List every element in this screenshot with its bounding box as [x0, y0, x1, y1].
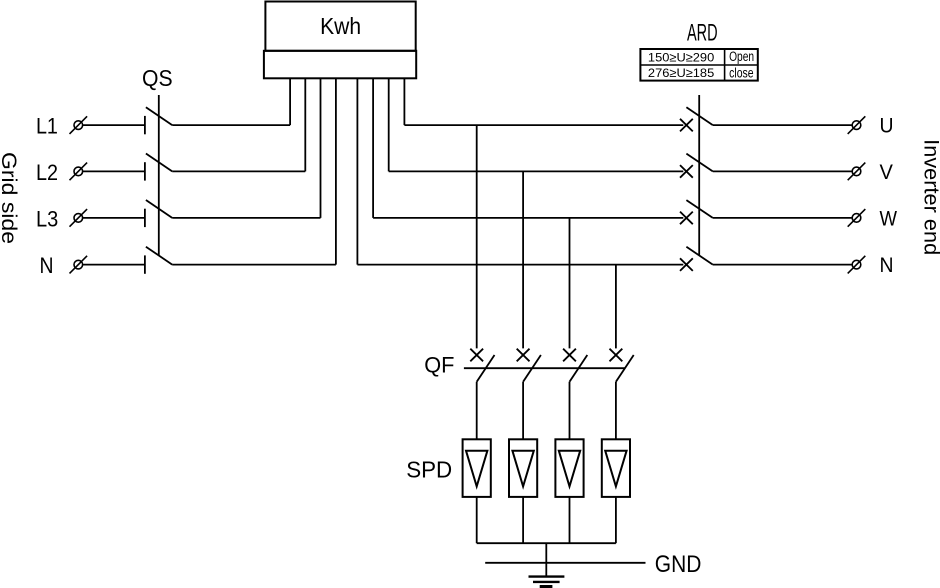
meter pin 4 (N in) [335, 78, 337, 264]
wire L2 terminal to QS [83, 170, 145, 172]
meter Kwh body [264, 2, 416, 79]
breaker ARD pole 3 X contact [680, 212, 693, 225]
wire L1 terminal to QS [83, 124, 145, 126]
wire L2 QS to meter pin [172, 170, 305, 172]
breaker QF pole 2 blade [523, 355, 541, 382]
breaker ARD pole 2 blade [686, 154, 712, 172]
meter pin 6 (W out) [372, 78, 374, 218]
wire SPD 2 to ground bus [522, 497, 524, 543]
wire V ARD to terminal [713, 170, 852, 172]
breaker QF pole 1 blade [477, 355, 495, 382]
wire U meter pin to ARD [404, 124, 683, 126]
terminal L2 circle [70, 163, 88, 181]
svg-text:L1: L1 [36, 114, 58, 139]
wire L1 QS to meter pin [172, 124, 290, 126]
breaker ARD pole 4 X contact [680, 258, 693, 271]
meter pin 3 (L3 in) [320, 78, 322, 218]
wire L3 QS to meter pin [172, 217, 320, 219]
meter pin 2 (L2 in) [304, 78, 306, 171]
breaker ARD pole 2 X contact [680, 165, 693, 178]
wire W ARD to terminal [713, 217, 852, 219]
svg-text:GND: GND [655, 551, 702, 578]
GND wire [485, 562, 645, 564]
svg-text:QS: QS [142, 65, 173, 91]
svg-text:L3: L3 [36, 206, 58, 231]
switch QS gang bar [158, 95, 160, 256]
switch QS pole 2 blade [146, 154, 172, 172]
terminal N circle [70, 256, 88, 274]
wire N meter pin to ARD [357, 264, 683, 266]
breaker QF pole 3 blade [570, 355, 588, 382]
wire SPD 3 to ground bus [569, 497, 571, 543]
wire QF pole 3 to SPD [569, 382, 571, 440]
breaker ARD pole 3 blade [686, 200, 712, 218]
breaker ARD pole 1 blade [686, 107, 712, 125]
wire SPD 1 to ground bus [476, 497, 478, 543]
breaker QF gang bar [464, 367, 625, 369]
svg-text:QF: QF [424, 353, 454, 378]
terminal L1 circle [70, 116, 88, 134]
SPD 4 body [602, 439, 630, 497]
breaker QF pole 4 blade [616, 355, 634, 382]
terminal L3 circle [70, 209, 88, 227]
wire U ARD to terminal [713, 124, 852, 126]
breaker ARD pole 1 X contact [680, 119, 693, 132]
breaker ARD gang bar [698, 95, 700, 256]
switch QS pole 1 blade [146, 107, 172, 125]
svg-text:ARD: ARD [687, 20, 718, 47]
wire QF pole 1 to SPD [476, 382, 478, 440]
svg-text:L2: L2 [36, 160, 58, 185]
terminal U circle (right) [848, 116, 866, 134]
meter pin 5 (N out) [356, 78, 358, 264]
switch QS pole 4 blade [146, 247, 172, 265]
terminal W circle (right) [848, 209, 866, 227]
breaker QF pole 4 X contact [610, 349, 623, 362]
SPD 2 arrow [512, 451, 533, 487]
meter pin 1 (L1 in) [289, 78, 291, 125]
wire N QS to meter pin [172, 264, 336, 266]
wire tap U down to QF pole 1 [476, 125, 478, 348]
svg-text:SPD: SPD [406, 457, 452, 483]
terminal V circle (right) [848, 163, 866, 181]
wire tap N down to QF pole 4 [615, 265, 617, 349]
svg-text:Kwh: Kwh [320, 13, 361, 39]
svg-text:N: N [880, 253, 894, 277]
SPD 1 arrow [466, 451, 487, 487]
wire N ARD to terminal [713, 264, 852, 266]
meter pin 7 (V out) [388, 78, 390, 171]
wire tap W down to QF pole 3 [569, 218, 571, 349]
svg-text:276≥U≥185: 276≥U≥185 [648, 66, 714, 80]
ground bus wire [477, 542, 616, 544]
svg-text:close: close [729, 66, 754, 81]
terminal N circle (right) [848, 256, 866, 274]
svg-text:U: U [880, 114, 894, 138]
switch QS pole 4 contact bar [144, 255, 146, 273]
svg-text:Inverter end: Inverter end [920, 139, 940, 255]
wire bus to earth [545, 543, 547, 576]
SPD 1 body [463, 439, 491, 497]
earth ground symbol [529, 577, 565, 587]
switch QS pole 3 contact bar [144, 209, 146, 227]
wire V meter pin to ARD [389, 170, 684, 172]
meter pin 8 (U out) [403, 78, 405, 125]
switch QS pole 2 contact bar [144, 162, 146, 180]
svg-text:Grid side: Grid side [0, 152, 21, 244]
breaker QF pole 3 X contact [563, 349, 576, 362]
SPD 3 body [555, 439, 583, 497]
switch QS pole 3 blade [146, 200, 172, 218]
breaker QF pole 1 X contact [470, 349, 483, 362]
SPD 4 arrow [605, 451, 626, 487]
breaker ARD pole 4 blade [686, 247, 712, 265]
wire SPD 4 to ground bus [615, 497, 617, 543]
svg-text:150≥U≥290: 150≥U≥290 [648, 51, 714, 65]
wire tap V down to QF pole 2 [522, 171, 524, 348]
svg-text:N: N [40, 253, 54, 278]
ARD settings table [640, 49, 757, 81]
svg-text:V: V [880, 160, 894, 184]
wire L3 terminal to QS [83, 217, 145, 219]
SPD 2 body [509, 439, 537, 497]
SPD 3 arrow [559, 451, 580, 487]
svg-text:W: W [880, 207, 898, 231]
breaker QF pole 2 X contact [517, 349, 530, 362]
switch QS pole 1 contact bar [144, 116, 146, 134]
svg-text:Open: Open [729, 49, 754, 64]
wire QF pole 2 to SPD [522, 382, 524, 440]
wire QF pole 4 to SPD [615, 382, 617, 440]
wire N terminal to QS [83, 264, 145, 266]
wire W meter pin to ARD [373, 217, 683, 219]
